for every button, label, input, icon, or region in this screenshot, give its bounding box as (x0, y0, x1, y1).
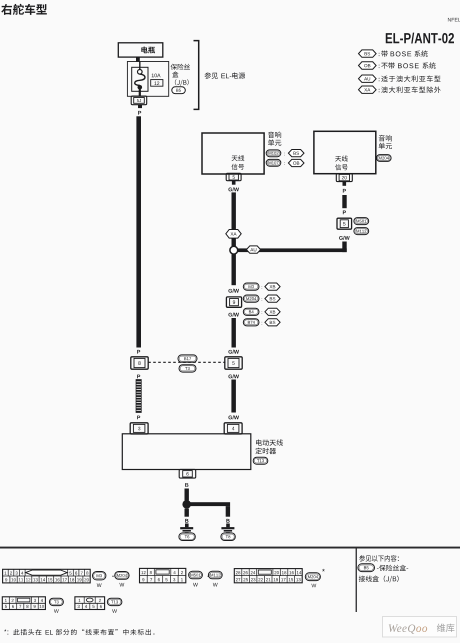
option symbol XB row3 (265, 308, 280, 315)
connector ref M501 grid oval (189, 571, 203, 586)
connector pin 6 of antenna timer (179, 469, 196, 478)
watermark box (383, 617, 457, 638)
connector ref M3 grid oval (93, 572, 106, 588)
label power antenna timer (255, 439, 282, 454)
colon M102-BS (283, 153, 285, 156)
separator line (0, 547, 460, 549)
option symbol BS row4 (265, 319, 280, 326)
label antenna signal right (335, 155, 348, 170)
label wire color P below connector 8 (137, 375, 140, 379)
wire B junction to right (187, 502, 230, 506)
wire fuse internal bottom (139, 89, 141, 96)
audio unit box (non-BOSE) (314, 131, 376, 173)
wire G/W to connector 4 (231, 380, 236, 413)
wire battery to fuse box (136, 57, 140, 62)
label see EL-POWER (205, 72, 245, 78)
colon M204-BS (261, 298, 263, 301)
bracket see EL-POWER (194, 41, 199, 110)
dot separator 2 (208, 576, 209, 577)
label wire color G/W below connector 5 dashed (228, 374, 239, 378)
connector ref M3 oval row (243, 283, 259, 290)
connector ref T13 oval (253, 457, 268, 464)
connector ref B5 oval (172, 87, 186, 94)
asterisk M204 (322, 569, 325, 572)
legend label for Australia models (381, 75, 440, 81)
connector face T13 6-pin (75, 597, 105, 610)
wire stub below 5J (138, 105, 142, 108)
wire P pin20 to connector 5 (342, 195, 346, 208)
connector ref M112 oval (354, 228, 369, 235)
label fuse block legend (377, 565, 408, 571)
label see following (359, 555, 399, 562)
fuse element symbol (135, 70, 145, 90)
junction dot ground split (182, 500, 191, 509)
connector ref B4 oval row (243, 308, 259, 315)
label audio unit right (379, 135, 392, 149)
wire G/W down to corner (342, 242, 346, 253)
wire B left branch down (185, 509, 189, 517)
wire B pin6 down (185, 489, 189, 501)
wire stub right ground (226, 524, 230, 528)
connector face M501 12-pin (140, 568, 186, 582)
label wire color G/W above connector 5 dashed (228, 350, 239, 354)
label wire color P above connector 8 (137, 350, 140, 354)
connector ref M112 grid oval (208, 571, 222, 586)
label wire color G/W below connector 5 right (339, 236, 350, 240)
option symbol XA on wire (226, 230, 241, 239)
label sheet code NFE (448, 18, 460, 22)
label wire color P (battery feed) (138, 111, 141, 115)
legend symbol XA (359, 86, 380, 93)
dashed link connector 8 to connector 5 (148, 361, 225, 363)
colon B4-XB (261, 311, 263, 314)
legend label without BOSE system (381, 62, 435, 68)
label wire color B left ground (185, 519, 188, 523)
label wire color P below pin 20 (343, 189, 346, 193)
wire fuse internal top (139, 62, 141, 70)
legend box divider (356, 549, 357, 613)
label fuse rating 10A (152, 74, 161, 78)
wire XA to junction circle (232, 238, 236, 246)
colon M107-OB (283, 162, 285, 165)
pin 5 of audio unit (226, 173, 241, 180)
wire B right branch down (226, 506, 230, 517)
power antenna timer box (122, 434, 251, 470)
connector ref T13 grid oval (107, 598, 122, 613)
ground ref T8 oval (221, 533, 235, 541)
watermark cn (437, 624, 455, 633)
label wire color G/W above connector 9 (228, 289, 239, 293)
battery (118, 43, 163, 57)
pin 20 of audio unit (336, 174, 352, 182)
connector ref M102 oval (266, 150, 281, 157)
ground symbol right (221, 527, 234, 533)
wire stub below pin 20 (343, 182, 347, 186)
connector 9 (M3/B4 joint) (226, 297, 241, 307)
label fuse block (171, 64, 190, 86)
option symbol BS left (288, 150, 304, 157)
connector ref T3 oval (179, 365, 196, 372)
connector ref T3 grid oval (49, 598, 63, 613)
watermark WeeQoo (388, 623, 428, 635)
connector ref M204 oval row (243, 295, 259, 302)
label audio unit left (268, 131, 281, 145)
connector ref M204 oval (377, 155, 392, 162)
colon B74-BS (261, 322, 263, 325)
connector ref B74 oval row (243, 319, 259, 326)
connector pin 4 of antenna timer (224, 423, 242, 434)
wire junction down to connector 9 (232, 254, 236, 285)
connector 8 (B17/T3 joint left) (131, 357, 148, 369)
footnote asterisk note (4, 629, 154, 635)
ground symbol left (180, 527, 193, 533)
legend symbol OB (359, 62, 380, 69)
label wire color P above connector 3 (137, 416, 140, 420)
legend symbol BS (359, 50, 380, 57)
label right-hand-drive model title (1, 4, 47, 15)
connector pin 3 of antenna timer (130, 423, 148, 434)
option symbol BS row2 (265, 295, 280, 302)
wire P battery trunk (136, 116, 141, 347)
junction circle (230, 246, 238, 254)
connector ref M204 grid oval 2 (305, 573, 320, 588)
dot separator 1 (112, 576, 113, 577)
wire stub left ground (185, 524, 189, 528)
connector 5 (dashed joint right) (225, 357, 242, 369)
fuse box J/B outline (127, 62, 168, 97)
wire P shielded segment (136, 380, 141, 413)
label diagram title EL-P/ANT-02 (386, 33, 454, 44)
connector ref B17 oval (178, 355, 197, 362)
label junction box legend (359, 575, 399, 582)
connector ref M204 grid oval (115, 572, 129, 587)
ground ref T6 oval (179, 533, 195, 541)
connector 5 (M501/M112 joint) (337, 218, 352, 229)
colon M3-XB (261, 286, 263, 289)
label wire color B below pin 6 (185, 483, 188, 487)
connector ref M107 oval (266, 159, 281, 166)
wire connector 9 to connector 5 row (232, 318, 236, 348)
label wire color G/W above connector 4 (228, 415, 239, 419)
wire G/W pin5 to XA (232, 192, 236, 229)
fuse 10A inner box (132, 67, 148, 91)
connector face T3 10-pin (2, 597, 45, 610)
label antenna signal left (232, 155, 245, 170)
option symbol OB left (288, 159, 304, 166)
connector ref M501 oval (354, 218, 369, 225)
label wire color G/W below connector 9 (228, 313, 239, 317)
label wire color P above connector 5 right (343, 210, 346, 214)
legend label with BOSE system (381, 50, 427, 56)
connector face M3 20-pin (3, 569, 91, 583)
connector face M204 28-pin (234, 569, 302, 583)
option symbol XB row1 (265, 283, 280, 290)
fuse number 12 box (151, 80, 163, 87)
label wire color B right ground (226, 519, 229, 523)
legend symbol AU (359, 75, 380, 82)
legend connector ref B5 oval (358, 564, 375, 572)
wire horizontal G/W to junction (237, 248, 347, 252)
connector 5J (131, 96, 147, 105)
label wire color G/W below pin 5 (228, 187, 239, 191)
legend label except Australia models (381, 86, 440, 92)
wire stub below pin 5 (232, 181, 236, 185)
audio unit box (BOSE) (202, 133, 264, 174)
svg-text:WeeQoo: WeeQoo (388, 623, 428, 635)
option symbol AU on horizontal wire (246, 246, 260, 253)
